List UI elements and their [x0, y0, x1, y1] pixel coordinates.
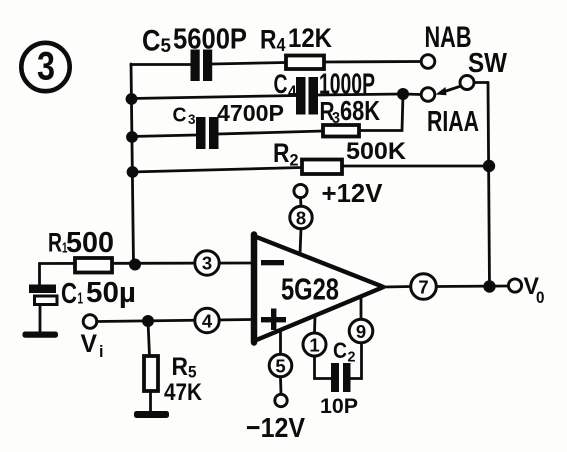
svg-text:C: C [333, 338, 347, 363]
svg-text:4: 4 [202, 311, 213, 332]
svg-text:R: R [172, 353, 189, 381]
pin 7 circle [411, 274, 437, 300]
svg-text:10P: 10P [320, 395, 358, 418]
capacitor C4 [296, 77, 318, 115]
node A: C4/R3/switch junction [397, 88, 409, 100]
svg-text:R: R [48, 228, 62, 258]
terminal Vi [83, 315, 97, 329]
node: bus / R1 / inverting input junction [129, 259, 141, 271]
svg-text:RIAA: RIAA [427, 106, 479, 138]
node: bus / C4 row junction [126, 93, 138, 105]
wire: C3 to R3 [219, 131, 324, 134]
switch arm with arrow toward RIAA [436, 86, 462, 95]
svg-text:500: 500 [66, 227, 114, 259]
node: R2 / right bus junction [483, 160, 495, 172]
wire: pin 5 down to -12V terminal [279, 377, 282, 395]
op-amp inverting input minus sign [261, 260, 284, 265]
svg-text:5600P: 5600P [173, 24, 247, 56]
wire: C4 to node A [318, 94, 403, 95]
wire: SW to right bus corner [474, 81, 488, 84]
svg-text:9: 9 [356, 321, 366, 342]
terminal +12V [294, 184, 307, 197]
svg-text:2: 2 [348, 349, 356, 366]
label C2 [333, 338, 356, 366]
wire: top row bus to C5 [131, 63, 191, 66]
wire: op-amp bottom edge to pin 1 [313, 316, 316, 334]
svg-text:R: R [273, 138, 290, 168]
wire: op-amp output to pin 7 [384, 285, 411, 288]
label Vi [81, 330, 104, 361]
terminal SW common [460, 76, 474, 90]
wire: left feedback bus [131, 64, 134, 264]
svg-text:3: 3 [37, 45, 55, 89]
wire: pin 1 down and right to C2 left plate [315, 356, 332, 379]
node: bus / R2 row junction [127, 166, 139, 178]
ground below C1 [23, 332, 59, 338]
wire: pin 9 down and left to C2 right plate [350, 343, 362, 379]
svg-text:C: C [173, 105, 187, 127]
pin 9 circle [349, 319, 373, 343]
capacitor C5 [191, 50, 213, 82]
terminal -12V [275, 394, 287, 406]
wire: op-amp bottom edge to pin 5 [279, 330, 282, 355]
svg-text:5: 5 [161, 36, 172, 57]
node: output / right bus junction [483, 280, 495, 292]
pin 8 circle [290, 206, 312, 228]
label R5 [172, 353, 197, 382]
svg-text:5: 5 [275, 356, 285, 377]
svg-text:5G28: 5G28 [281, 272, 339, 307]
resistor R1 [75, 258, 112, 273]
svg-text:R: R [260, 25, 277, 55]
svg-text:1: 1 [78, 291, 84, 308]
ground below R5 [134, 411, 169, 418]
wire: C5 to R4 [212, 63, 286, 65]
svg-text:50µ: 50µ [86, 277, 136, 309]
resistor R5 [144, 356, 158, 391]
svg-text:C: C [61, 278, 77, 310]
svg-text:C: C [274, 69, 288, 99]
svg-text:7: 7 [418, 277, 428, 298]
svg-text:3: 3 [332, 110, 340, 127]
wire: R5 to ground [149, 391, 152, 413]
svg-text:500K: 500K [346, 138, 407, 165]
wire: right bus vertical [488, 83, 490, 287]
op-amp U1 5G28 triangle [254, 236, 384, 341]
svg-text:0: 0 [536, 288, 545, 307]
wire: R3 right end up to node A [359, 94, 403, 131]
pin 4 circle [195, 308, 219, 332]
node: bus / C3 row junction [126, 131, 138, 143]
wire: C4 row bus to C4 [131, 96, 296, 99]
svg-text:2: 2 [290, 151, 299, 170]
resistor R3 [323, 125, 359, 137]
label C3 [173, 105, 196, 128]
label C1 50u [61, 277, 136, 310]
pin 3 circle [195, 251, 219, 275]
label R1 500 [48, 227, 114, 259]
wire: R1 left corner down to C1 [38, 264, 41, 286]
wire: non-inverting input row [97, 320, 253, 322]
svg-text:4: 4 [277, 35, 286, 55]
wire: node A to RIAA terminal [403, 93, 421, 96]
wire: pin 8 down to op-amp top edge [300, 229, 301, 254]
svg-text:V: V [81, 330, 98, 358]
wire: pin 7 to output terminal [436, 285, 508, 288]
node: Vi / R5 junction [142, 315, 154, 327]
wire: C3 row bus to C3 [131, 135, 196, 137]
label C4 [274, 69, 297, 101]
pin 1 circle [303, 333, 326, 356]
capacitor C3 [196, 117, 219, 149]
pin 5 circle [269, 354, 292, 377]
svg-text:68K: 68K [340, 95, 380, 126]
svg-text:SW: SW [468, 47, 507, 78]
label R2 [273, 138, 299, 170]
terminal V0 [508, 279, 521, 292]
svg-text:i: i [99, 342, 104, 361]
wire: R2 row bus to R2 [131, 168, 302, 173]
op-amp non-inverting input plus sign [261, 309, 286, 331]
svg-text:4: 4 [288, 82, 297, 101]
resistor R4 [286, 56, 324, 70]
svg-text:−12V: −12V [246, 412, 305, 443]
terminal NAB [421, 55, 435, 69]
svg-text:12K: 12K [288, 23, 332, 53]
svg-text:C: C [142, 25, 161, 58]
wire: R4 to NAB terminal [324, 60, 421, 63]
wire: inverting input row [40, 262, 253, 265]
svg-text:NAB: NAB [425, 21, 472, 54]
svg-text:3: 3 [202, 253, 212, 274]
svg-text:47K: 47K [164, 379, 203, 406]
wire: junction down to R5 [148, 321, 150, 356]
resistor R2 [302, 160, 342, 175]
label V0 [524, 273, 545, 307]
svg-text:1: 1 [309, 335, 319, 356]
label R3 [320, 96, 341, 127]
label R4 [260, 25, 286, 56]
svg-text:8: 8 [296, 208, 306, 229]
wire: R2 to right bus [342, 165, 489, 168]
svg-text:+12V: +12V [322, 178, 384, 208]
figure number circle 3 [21, 43, 69, 91]
label C5 [142, 25, 171, 58]
capacitor C1 electrolytic [29, 285, 57, 333]
terminal RIAA [421, 88, 435, 102]
wire: op-amp bottom edge to pin 9 [360, 297, 363, 320]
capacitor C2 [331, 363, 351, 392]
wire: +12V down to pin 8 [299, 198, 302, 207]
svg-text:4700P: 4700P [217, 100, 284, 126]
svg-text:3: 3 [188, 111, 196, 127]
